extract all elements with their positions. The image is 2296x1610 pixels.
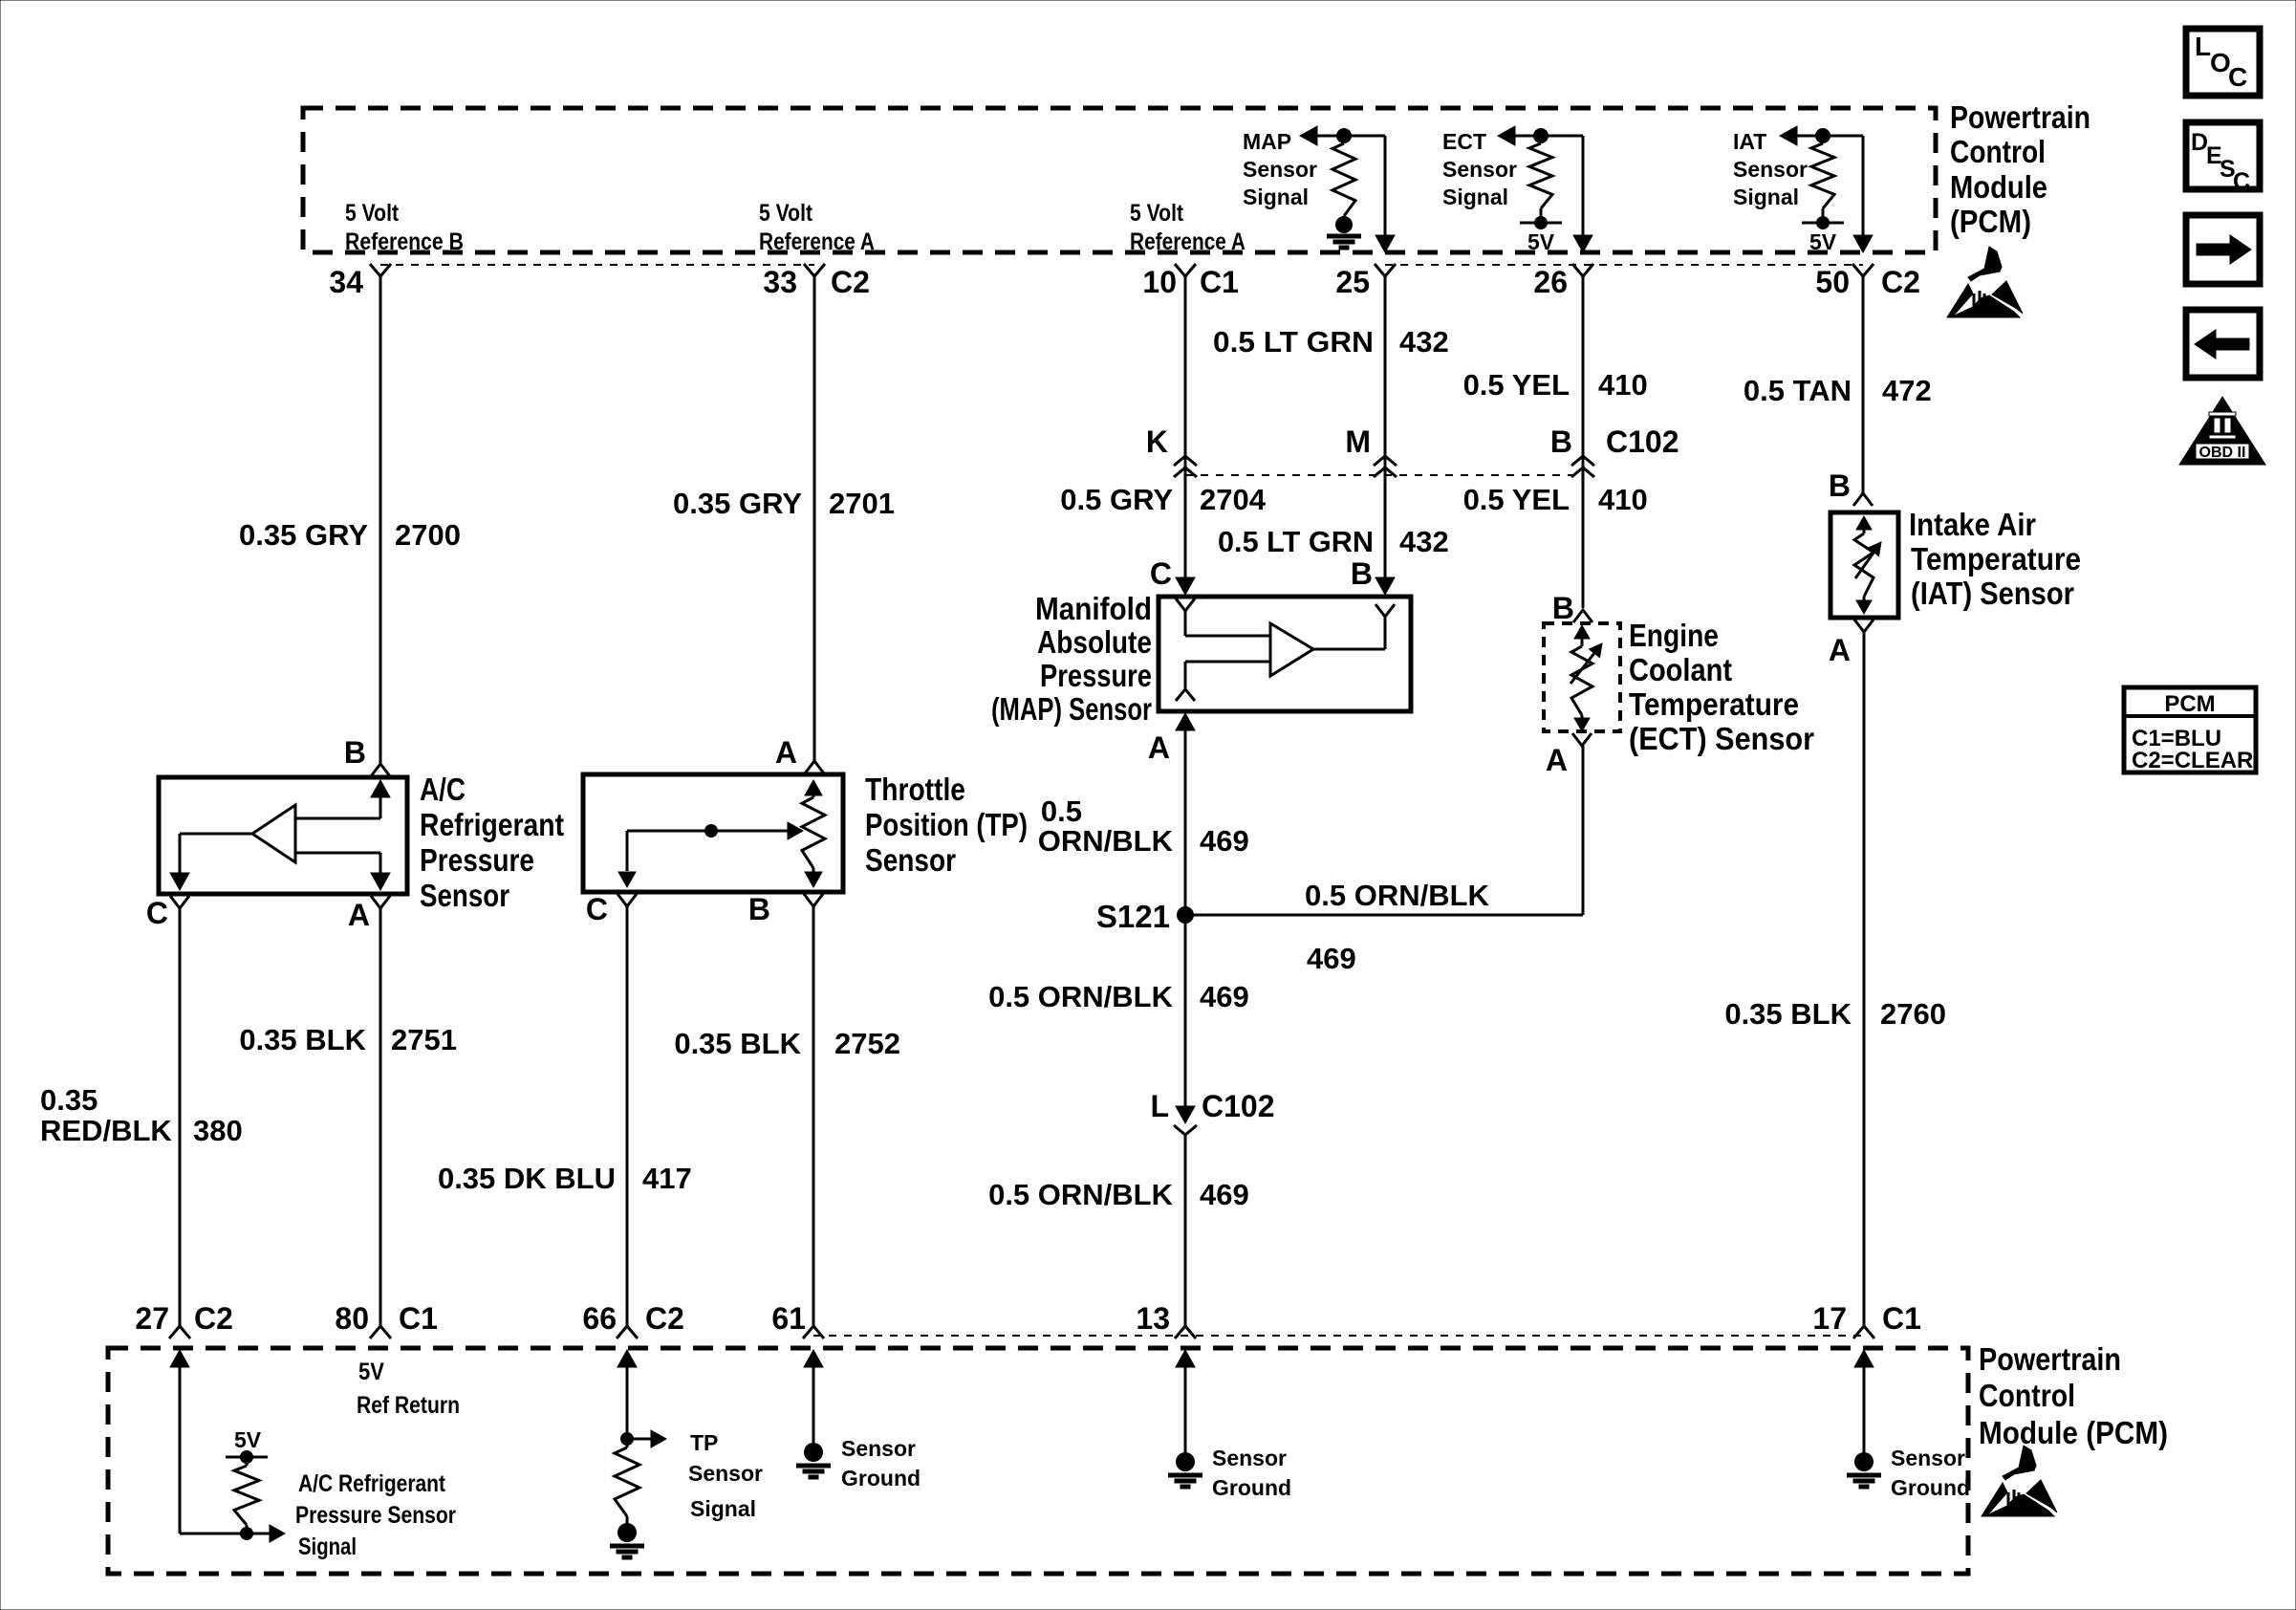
svg-text:Position (TP): Position (TP) <box>865 807 1028 842</box>
svg-text:Module (PCM): Module (PCM) <box>1979 1415 2168 1450</box>
svg-text:2701: 2701 <box>829 487 895 520</box>
pin B ECT <box>1552 591 1574 625</box>
label 0.5 YEL 410 lower <box>1463 483 1648 516</box>
node MAP signal junction <box>1336 128 1352 143</box>
svg-text:Absolute: Absolute <box>1037 624 1152 660</box>
svg-text:0.35 DK BLU: 0.35 DK BLU <box>438 1162 616 1195</box>
svg-text:A: A <box>775 735 797 770</box>
label Sensor Ground 61 <box>841 1436 921 1490</box>
svg-text:0.5 YEL: 0.5 YEL <box>1463 483 1570 516</box>
ECT sensor dashed box <box>1544 623 1620 731</box>
svg-text:B: B <box>344 735 366 770</box>
svg-text:A: A <box>1148 730 1170 765</box>
svg-text:13: 13 <box>1136 1301 1170 1336</box>
connector dashed line pins 25-50 <box>1385 264 1863 266</box>
svg-text:Powertrain: Powertrain <box>1979 1341 2121 1377</box>
label 0.35 BLK 2760 <box>1724 997 1946 1031</box>
TP sensor box <box>583 774 843 892</box>
wire 432 pin25 to MAP B <box>1375 276 1395 595</box>
svg-text:469: 469 <box>1200 824 1249 858</box>
label Powertrain Control Module (PCM) bottom right <box>1979 1341 2168 1450</box>
wire 2700 pin34 to A/C B <box>371 276 390 776</box>
svg-text:Intake Air: Intake Air <box>1909 507 2036 542</box>
A/C internal output B <box>295 780 390 818</box>
svg-text:0.35 GRY: 0.35 GRY <box>239 518 368 552</box>
svg-text:B: B <box>1829 468 1851 503</box>
svg-text:Sensor: Sensor <box>841 1436 916 1461</box>
svg-text:(MAP) Sensor: (MAP) Sensor <box>991 691 1152 727</box>
svg-text:A/C: A/C <box>420 772 466 807</box>
icon DESC box <box>2186 122 2260 195</box>
MAP internal output B <box>1313 604 1395 649</box>
svg-text:(IAT) Sensor: (IAT) Sensor <box>1911 576 2074 611</box>
ground sensor ground 13 <box>1168 1452 1202 1487</box>
svg-text:Control: Control <box>1950 134 2046 169</box>
svg-text:Control: Control <box>1979 1378 2075 1413</box>
svg-text:5 Volt: 5 Volt <box>1130 200 1184 227</box>
svg-text:0.5 TAN: 0.5 TAN <box>1744 374 1852 407</box>
label Manifold Absolute Pressure (MAP) Sensor <box>991 591 1152 727</box>
svg-text:Sensor: Sensor <box>1212 1446 1287 1470</box>
svg-text:Signal: Signal <box>1243 185 1309 209</box>
pin A A/C <box>348 898 370 932</box>
svg-text:B: B <box>1351 556 1373 591</box>
svg-text:0.5 GRY: 0.5 GRY <box>1060 483 1173 516</box>
wire 472 pin50 to IAT B <box>1853 276 1873 506</box>
node TP signal tap <box>620 1430 666 1447</box>
svg-text:0.35 GRY: 0.35 GRY <box>673 487 802 520</box>
svg-text:OBD II: OBD II <box>2199 445 2246 461</box>
ground MAP resistor <box>1327 216 1361 248</box>
svg-text:2704: 2704 <box>1200 483 1267 516</box>
wire MAP A pin up arrow <box>1176 713 1195 915</box>
label IAT Sensor Signal <box>1733 129 1808 209</box>
connector C102 pin M <box>1345 424 1397 477</box>
svg-text:469: 469 <box>1307 942 1356 975</box>
wire pin 13 into PCM <box>1176 1350 1195 1453</box>
pin 26 <box>1533 264 1593 299</box>
svg-text:27: 27 <box>135 1301 169 1336</box>
resistor ECT pull-up <box>1529 143 1552 208</box>
label 0.5 ORN/BLK 469 splice <box>1305 879 1490 975</box>
wire IAT signal to pin 50 <box>1853 136 1873 252</box>
wire pin 17 into PCM <box>1854 1350 1874 1453</box>
pin 80 C1 <box>335 1301 438 1336</box>
icon right arrow box <box>2186 215 2260 284</box>
svg-text:Sensor: Sensor <box>688 1461 763 1486</box>
svg-text:Temperature: Temperature <box>1911 541 2081 577</box>
A/C refrigerant pressure sensor box <box>159 777 407 894</box>
TP wiper arm <box>618 822 803 887</box>
node IAT signal junction <box>1815 128 1830 143</box>
label 0.5 YEL 410 upper <box>1463 368 1648 402</box>
label 0.5 GRY 2704 <box>1060 483 1266 516</box>
svg-text:TP: TP <box>690 1430 718 1455</box>
wire 469 S121 to C102 L <box>1176 915 1195 1123</box>
svg-text:PCM: PCM <box>2164 691 2215 717</box>
svg-text:80: 80 <box>335 1301 369 1336</box>
svg-text:C: C <box>146 896 168 930</box>
svg-text:469: 469 <box>1200 1178 1249 1211</box>
label 5V IAT <box>1809 229 1837 254</box>
svg-text:Pressure: Pressure <box>420 842 534 878</box>
svg-text:B: B <box>748 892 770 926</box>
legend PCM connector colors <box>2124 687 2256 773</box>
pin A IAT <box>1829 633 1851 667</box>
svg-text:C2: C2 <box>194 1301 233 1336</box>
svg-text:C102: C102 <box>1606 424 1679 459</box>
node ECT 5V tap <box>1520 216 1562 229</box>
pin A ECT <box>1546 743 1568 777</box>
connector C102 pin B <box>1550 424 1679 477</box>
label 0.5 ORN/BLK 469 mid <box>988 980 1249 1013</box>
label 5V ECT <box>1527 229 1555 254</box>
connector C102 dashed line <box>1185 474 1583 476</box>
svg-text:5 Volt: 5 Volt <box>759 200 813 227</box>
svg-text:C2: C2 <box>831 265 870 299</box>
label 0.35 GRY 2700 <box>239 518 461 552</box>
pin 66 C2 <box>582 1301 684 1336</box>
wire 380 A/C C to pin 27 <box>169 896 190 1338</box>
svg-text:Coolant: Coolant <box>1629 652 1732 687</box>
label 5 Volt Reference A pin33 <box>759 200 875 255</box>
svg-text:410: 410 <box>1598 368 1648 402</box>
svg-text:0.35: 0.35 <box>40 1083 97 1117</box>
pin 61 <box>771 1301 806 1336</box>
pin 25 <box>1335 264 1396 299</box>
svg-text:C: C <box>2233 168 2250 195</box>
svg-text:2752: 2752 <box>834 1027 900 1060</box>
svg-text:C1: C1 <box>1882 1301 1921 1336</box>
svg-text:0.5 LT GRN: 0.5 LT GRN <box>1213 325 1374 359</box>
svg-text:380: 380 <box>193 1114 243 1147</box>
pin B MAP <box>1351 556 1373 591</box>
pin 50 C2 <box>1815 264 1920 299</box>
svg-text:410: 410 <box>1598 483 1648 516</box>
svg-text:Sensor: Sensor <box>420 878 509 913</box>
svg-text:0.35 BLK: 0.35 BLK <box>239 1023 366 1056</box>
svg-text:Sensor: Sensor <box>1891 1446 1965 1470</box>
svg-text:Refrigerant: Refrigerant <box>420 807 564 842</box>
pin C TP <box>586 892 608 926</box>
icon left arrow box <box>2186 310 2260 378</box>
op-amp MAP amplifier <box>1270 623 1313 676</box>
svg-text:Ground: Ground <box>1212 1475 1291 1500</box>
svg-text:A: A <box>1829 633 1851 667</box>
A/C internal input A <box>295 853 390 890</box>
node 5V A/C tap <box>226 1450 268 1464</box>
svg-text:C102: C102 <box>1202 1089 1275 1123</box>
ESD warning symbol bottom right <box>1982 1446 2057 1516</box>
svg-text:26: 26 <box>1533 265 1568 299</box>
ground sensor ground 61 <box>796 1443 831 1477</box>
svg-text:Sensor: Sensor <box>1733 157 1808 182</box>
svg-text:2760: 2760 <box>1880 997 1946 1031</box>
label 0.5 ORN/BLK 469 lower <box>988 1178 1249 1211</box>
label Powertrain Control Module (PCM) top right <box>1950 99 2090 239</box>
svg-text:0.35 BLK: 0.35 BLK <box>1724 997 1852 1031</box>
svg-text:S121: S121 <box>1096 899 1170 934</box>
ground TP signal <box>610 1518 644 1557</box>
svg-text:61: 61 <box>771 1301 806 1336</box>
svg-text:0.35 BLK: 0.35 BLK <box>674 1027 801 1060</box>
label ECT Sensor Signal <box>1442 129 1517 209</box>
pin 33 C2 <box>763 264 870 299</box>
node IAT 5V tap <box>1802 216 1844 229</box>
label Intake Air Temperature (IAT) Sensor <box>1909 507 2081 611</box>
wire 2751 A/C A to pin 80 <box>370 896 391 1338</box>
svg-text:Ground: Ground <box>1891 1475 1970 1500</box>
svg-text:Temperature: Temperature <box>1629 686 1799 722</box>
label 5 Volt Reference A pin10 <box>1130 200 1245 255</box>
thermistor IAT <box>1854 516 1887 614</box>
svg-text:0.5 ORN/BLK: 0.5 ORN/BLK <box>988 980 1174 1013</box>
svg-text:(PCM): (PCM) <box>1950 204 2031 239</box>
label A/C Refrigerant Pressure Sensor Signal <box>295 1470 456 1560</box>
node ECT signal junction <box>1533 128 1549 143</box>
svg-text:417: 417 <box>642 1162 692 1195</box>
svg-text:34: 34 <box>329 265 363 299</box>
svg-text:C1: C1 <box>1200 265 1239 299</box>
svg-text:C: C <box>1150 556 1172 591</box>
svg-text:5 Volt: 5 Volt <box>345 200 400 227</box>
wire 2752 TP B to pin 61 <box>803 894 824 1338</box>
label 0.5 ORN/BLK 469 upper <box>1038 794 1249 858</box>
svg-text:Manifold: Manifold <box>1035 591 1152 626</box>
svg-text:0.5 YEL: 0.5 YEL <box>1463 368 1570 402</box>
label 5 Volt Reference B <box>345 200 464 255</box>
svg-text:IAT: IAT <box>1733 129 1766 154</box>
svg-text:L: L <box>1150 1089 1169 1123</box>
wire 2760 IAT A to pin 17 <box>1853 620 1874 1338</box>
label Sensor Ground 17 <box>1891 1446 1970 1500</box>
svg-text:Engine: Engine <box>1629 618 1719 653</box>
svg-text:Pressure: Pressure <box>1040 658 1152 693</box>
wire MAP signal to pin 25 <box>1375 136 1395 252</box>
svg-text:Sensor: Sensor <box>1243 157 1317 182</box>
pin 27 C2 <box>135 1301 233 1336</box>
svg-text:ORN/BLK: ORN/BLK <box>1038 824 1174 858</box>
svg-text:10: 10 <box>1142 265 1177 299</box>
svg-text:Pressure Sensor: Pressure Sensor <box>295 1502 456 1529</box>
svg-text:C: C <box>2228 62 2247 92</box>
MAP internal input C <box>1176 598 1270 636</box>
svg-text:Signal: Signal <box>1733 185 1799 209</box>
wire 410 pin26 to ECT B <box>1573 276 1592 622</box>
ground sensor ground 17 <box>1847 1452 1881 1487</box>
svg-text:K: K <box>1146 424 1168 459</box>
svg-text:Reference A: Reference A <box>1130 228 1245 255</box>
pin C MAP <box>1150 556 1172 591</box>
pin A MAP <box>1148 730 1170 765</box>
svg-text:C: C <box>586 892 608 926</box>
label 5V A/C ref <box>234 1427 262 1452</box>
connector C2 dashed line pins 34-33 <box>380 264 814 266</box>
label Engine Coolant Temperature (ECT) Sensor <box>1629 618 1814 756</box>
wire IAT resistor to 5V <box>1822 208 1825 223</box>
svg-text:Signal: Signal <box>690 1496 756 1521</box>
svg-text:B: B <box>1552 591 1574 625</box>
resistor IAT pull-up <box>1811 143 1834 208</box>
op-amp A/C amplifier <box>252 805 295 862</box>
svg-text:A: A <box>1546 743 1568 777</box>
svg-text:5V: 5V <box>234 1427 262 1452</box>
svg-text:A: A <box>348 898 370 932</box>
svg-text:0.5 ORN/BLK: 0.5 ORN/BLK <box>988 1178 1174 1211</box>
svg-text:66: 66 <box>582 1301 617 1336</box>
svg-text:5V: 5V <box>1527 229 1555 254</box>
icon LOC box <box>2186 29 2260 96</box>
svg-text:ECT: ECT <box>1442 129 1486 154</box>
svg-text:0.5 ORN/BLK: 0.5 ORN/BLK <box>1305 879 1490 912</box>
svg-text:MAP: MAP <box>1243 129 1291 154</box>
svg-text:432: 432 <box>1399 325 1449 359</box>
label 0.5 LT GRN 432 upper <box>1213 325 1449 359</box>
label 0.35 DK BLU 417 <box>438 1162 692 1195</box>
svg-text:Module: Module <box>1950 169 2047 205</box>
MAP internal input A <box>1176 662 1270 701</box>
pin 13 <box>1136 1301 1170 1336</box>
svg-text:0.5: 0.5 <box>1041 794 1082 828</box>
PCM top dashed box <box>303 108 1936 252</box>
thermistor ECT <box>1570 625 1608 731</box>
pin B TP <box>748 892 770 926</box>
svg-text:Reference B: Reference B <box>345 228 464 255</box>
pin 17 C1 <box>1812 1301 1921 1336</box>
connector C1 dashed line bottom <box>813 1335 1864 1337</box>
IAT sensor box <box>1830 512 1898 618</box>
svg-text:472: 472 <box>1882 374 1932 407</box>
svg-text:RED/BLK: RED/BLK <box>40 1114 172 1147</box>
potentiometer TP <box>802 780 825 887</box>
wire ECT signal horizontal <box>1498 126 1583 145</box>
svg-text:L: L <box>2195 32 2211 61</box>
svg-text:C2: C2 <box>645 1301 684 1336</box>
pin A TP <box>775 735 797 770</box>
label Throttle Position (TP) Sensor <box>865 772 1028 878</box>
label 0.35 BLK 2751 <box>239 1023 457 1056</box>
svg-text:50: 50 <box>1815 265 1850 299</box>
svg-text:Powertrain: Powertrain <box>1950 99 2090 135</box>
wire ECT A to S121 line <box>1572 733 1592 915</box>
node S121 splice <box>1096 899 1194 934</box>
A/C internal output C <box>170 834 252 890</box>
svg-text:Ground: Ground <box>841 1466 921 1490</box>
svg-text:5V: 5V <box>1809 229 1837 254</box>
pin 34 <box>329 264 391 299</box>
svg-text:Sensor: Sensor <box>865 842 956 878</box>
label 0.35 BLK 2752 <box>674 1027 900 1060</box>
label TP Sensor Signal <box>688 1430 763 1521</box>
svg-text:2700: 2700 <box>395 518 461 552</box>
svg-text:Ref Return: Ref Return <box>357 1392 460 1419</box>
pin 10 C1 <box>1142 264 1239 299</box>
wire A/C ref signal arrow <box>180 1525 285 1542</box>
wire pin 66 into PCM <box>617 1350 637 1439</box>
wire 417 TP C to pin 66 <box>617 894 638 1338</box>
wire 469 S121 to ECT A <box>1185 914 1583 917</box>
svg-text:Throttle: Throttle <box>865 772 965 807</box>
MAP sensor box <box>1159 597 1411 711</box>
label 0.35 GRY 2701 <box>673 487 895 520</box>
svg-text:33: 33 <box>763 265 797 299</box>
svg-text:(ECT) Sensor: (ECT) Sensor <box>1629 721 1814 756</box>
svg-text:C1: C1 <box>399 1301 438 1336</box>
svg-text:Signal: Signal <box>298 1534 357 1560</box>
wire MAP signal horizontal <box>1300 126 1385 145</box>
label Sensor Ground 13 <box>1212 1446 1291 1500</box>
svg-text:C2=CLEAR: C2=CLEAR <box>2132 748 2253 773</box>
svg-text:17: 17 <box>1812 1301 1847 1336</box>
connector C102 pin K <box>1146 424 1197 477</box>
resistor A/C ref signal <box>234 1457 259 1534</box>
svg-text:469: 469 <box>1200 980 1249 1013</box>
wire 469 C102 to pin 13 <box>1175 1135 1196 1338</box>
pin B IAT <box>1829 468 1851 503</box>
svg-text:B: B <box>1550 424 1572 459</box>
wire ECT resistor to 5V <box>1540 208 1543 223</box>
svg-text:Sensor: Sensor <box>1442 157 1517 182</box>
svg-text:A/C Refrigerant: A/C Refrigerant <box>298 1470 446 1497</box>
svg-text:25: 25 <box>1335 265 1370 299</box>
svg-text:432: 432 <box>1399 525 1449 558</box>
wire 2704 pin10 to MAP C <box>1176 276 1195 595</box>
wire ECT signal to pin 26 <box>1573 136 1592 252</box>
svg-text:C2: C2 <box>1881 265 1920 299</box>
svg-text:Reference A: Reference A <box>759 228 875 255</box>
svg-text:Signal: Signal <box>1442 185 1508 209</box>
svg-text:M: M <box>1345 424 1371 459</box>
label A/C Refrigerant Pressure Sensor <box>420 772 564 913</box>
connector C102 L <box>1150 1089 1274 1135</box>
label 0.5 LT GRN 432 lower <box>1218 525 1449 558</box>
ESD warning symbol top right <box>1947 247 2023 317</box>
pin B A/C <box>344 735 366 770</box>
label MAP Sensor Signal <box>1243 129 1317 209</box>
pin C A/C <box>146 896 168 930</box>
icon OBD II triangle <box>2179 397 2265 465</box>
label 0.35 RED/BLK 380 <box>40 1083 243 1147</box>
svg-text:0.5 LT GRN: 0.5 LT GRN <box>1218 525 1374 558</box>
svg-text:5V: 5V <box>358 1359 384 1385</box>
wire IAT signal horizontal <box>1780 126 1863 145</box>
PCM bottom dashed box <box>108 1348 1968 1574</box>
label 0.5 TAN 472 <box>1744 374 1932 407</box>
svg-text:2751: 2751 <box>391 1023 457 1056</box>
wire pin 61 into PCM <box>804 1350 823 1444</box>
wire pin 27 into PCM <box>170 1350 189 1534</box>
resistor TP signal <box>615 1439 639 1523</box>
resistor MAP pull-down <box>1332 143 1355 216</box>
wire 2701 pin33 to TP A <box>805 276 824 773</box>
label 5V Ref Return <box>357 1359 460 1419</box>
